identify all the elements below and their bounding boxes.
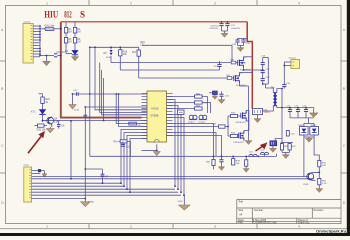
svg-text:R25 10k: R25 10k xyxy=(37,128,47,131)
title block xyxy=(237,199,341,224)
comp row y156: resistor R45 xyxy=(206,156,215,169)
svg-text:1: 1 xyxy=(46,1,48,5)
diode D32 boxed xyxy=(310,125,319,135)
capacitor C31 on red rail xyxy=(225,22,240,31)
transistor Q3 mosfet lower xyxy=(226,73,247,87)
svg-text:C: C xyxy=(343,144,346,148)
svg-text:3: 3 xyxy=(214,1,216,5)
connector CN2 xyxy=(24,163,32,202)
svg-text:1.2K: 1.2K xyxy=(322,183,327,185)
wire red top horizontal xyxy=(61,21,247,23)
ground under resistor network xyxy=(282,155,289,159)
svg-text:Number: Number xyxy=(254,208,263,212)
resistor R31 right of IC xyxy=(167,101,211,113)
transformer T1 xyxy=(263,88,283,111)
svg-text:Drawn by:: Drawn by: xyxy=(298,220,310,224)
resistor R32 right of IC xyxy=(167,105,203,110)
ground below D2 xyxy=(71,57,78,61)
svg-text:D: D xyxy=(1,201,4,205)
svg-text:C: C xyxy=(1,144,4,148)
transistor Q5 xyxy=(303,172,319,185)
svg-text:CN2: CN2 xyxy=(24,163,30,167)
svg-text:25V/50V: 25V/50V xyxy=(210,28,219,30)
resistor R2 (grid top-right) xyxy=(73,27,81,33)
comp row y156: resistor R50 + ground xyxy=(243,156,249,172)
wire left fan lower nested xyxy=(121,130,147,193)
ground below C6 xyxy=(43,61,51,66)
svg-text:C12: C12 xyxy=(126,147,131,149)
svg-text:R17: R17 xyxy=(132,52,137,54)
wire IC left pins xyxy=(142,94,148,139)
wire IC pin1 horizontal + ground left xyxy=(73,93,148,95)
node dots pin1 net xyxy=(89,46,120,121)
capacitor C19 under CN3 xyxy=(281,83,291,90)
resistor R52 xyxy=(318,178,327,188)
svg-text:OnlineSpark.Ru.ru: OnlineSpark.Ru.ru xyxy=(316,229,350,234)
resistor R19 inline below red wire xyxy=(129,122,142,127)
capacitors C14 C15 C16b plates xyxy=(288,109,308,111)
left zone ticks xyxy=(0,60,6,62)
ground below U3 xyxy=(254,119,261,123)
resistor R14 + capacitor C12 near IC left top xyxy=(114,140,131,157)
svg-text:4148: 4148 xyxy=(74,110,80,112)
svg-text:10R: 10R xyxy=(226,75,230,77)
svg-text:10R: 10R xyxy=(230,59,234,61)
svg-text:4148: 4148 xyxy=(106,57,112,59)
wire long mid horizontals xyxy=(111,62,238,64)
comp row y156: capacitor C22 + ground xyxy=(218,156,224,170)
node junction dots CN10 rail xyxy=(39,25,62,56)
annotation arrow 1 xyxy=(28,132,44,153)
svg-text:File:: File: xyxy=(238,220,243,224)
top zone ticks xyxy=(88,0,90,6)
inductor L1 xyxy=(44,25,54,31)
ground below R52 xyxy=(316,189,323,193)
red highlighted net and annotations xyxy=(28,10,267,154)
ground right of CN2 xyxy=(42,174,47,177)
svg-text:R14: R14 xyxy=(114,142,119,144)
svg-text:HIU: HIU xyxy=(44,10,58,20)
opto U5 xyxy=(188,115,197,124)
svg-text:1: 1 xyxy=(46,225,48,229)
svg-text:GND: GND xyxy=(178,201,183,203)
ground below C30 C31 xyxy=(221,31,228,37)
resistor R16 xyxy=(119,50,128,57)
capacitor C4 inline on pin1 wire xyxy=(73,90,78,96)
node dots cap rail xyxy=(281,107,307,109)
resistor R51 xyxy=(318,160,327,178)
svg-text:2: 2 xyxy=(130,225,132,229)
resistor R4 (grid bottom-right) xyxy=(73,37,81,43)
right zone ticks xyxy=(341,60,347,62)
capacitor C5 inline on left vertical xyxy=(74,110,92,119)
opto U6 xyxy=(199,115,208,124)
svg-text:100n/63V: 100n/63V xyxy=(231,28,241,30)
ground mid top (above comp row) xyxy=(245,139,252,145)
wire resistor grid verticals xyxy=(66,22,75,54)
svg-text:1M: 1M xyxy=(77,42,80,44)
wire Q3 connections xyxy=(239,72,252,138)
svg-text:812: 812 xyxy=(64,10,72,20)
wire top mid bus xyxy=(85,45,237,198)
capacitor C32 pair off red vertical xyxy=(232,39,251,48)
svg-text:FDD8447L: FDD8447L xyxy=(234,142,245,144)
transistor Q2 mosfet upper xyxy=(230,57,251,71)
transistor Q7 mosfet xyxy=(234,131,245,145)
wire right fan verticals xyxy=(167,100,185,196)
wire left fan upper xyxy=(59,47,147,179)
wire long right horizontals from IC lower pins xyxy=(167,124,222,157)
resistor R34 xyxy=(228,133,239,138)
node dots red rail caps xyxy=(221,21,229,23)
wire secondary cap rail xyxy=(282,89,314,143)
svg-text:0765B: 0765B xyxy=(151,114,159,118)
svg-text:Title: Title xyxy=(238,200,243,204)
ground below arrow2 box xyxy=(269,148,276,152)
svg-text:FDD8447L: FDD8447L xyxy=(236,122,247,124)
svg-text:1M: 1M xyxy=(68,32,71,34)
svg-text:3: 3 xyxy=(214,225,216,229)
comp row y156: dual diode DD1 xyxy=(249,152,257,157)
ground mid bottom GND2 xyxy=(178,195,190,210)
transistor Q4 xyxy=(43,117,60,127)
capacitor C7 near bottom xyxy=(85,169,109,184)
comp row y156: resistor R49 xyxy=(232,156,241,165)
capacitor C6 xyxy=(54,51,65,57)
wire red right vertical xyxy=(247,22,252,109)
diode D31 boxed xyxy=(299,125,309,135)
resistor R17 xyxy=(132,50,140,56)
svg-text:TL431: TL431 xyxy=(264,112,271,114)
ground mid bottom GND1 xyxy=(81,199,95,207)
wire CN2 bus lines xyxy=(32,177,314,199)
box target of arrow2 xyxy=(270,139,282,149)
wire Q2 drain to red xyxy=(243,57,262,70)
resistor network R41 R42 xyxy=(280,143,296,155)
ground below C32 pair xyxy=(237,48,244,52)
connector CN3 xyxy=(283,57,299,85)
resistor R24 xyxy=(39,94,51,110)
wire secondary rect rail xyxy=(304,118,319,177)
node dots right fan xyxy=(174,185,185,196)
wire Q6 Q7 drains to red node xyxy=(244,111,249,131)
wire IC bottom stem + ground xyxy=(142,144,161,155)
svg-text:C6 104: C6 104 xyxy=(57,51,66,54)
svg-text:D: D xyxy=(343,201,346,205)
comp row y156: dual diode DD2 xyxy=(260,150,268,157)
wire Q4 base net to right xyxy=(46,120,60,122)
ferrite bead FB1 xyxy=(38,169,41,172)
resistor R1 (grid top-left) xyxy=(64,27,72,33)
thyristor KY1 (filled) xyxy=(31,109,46,122)
ground under diode rail xyxy=(306,138,313,142)
IC U3 small regulator at red end xyxy=(253,109,271,119)
transistor Q6 mosfet xyxy=(236,111,247,124)
wire CN2 top pins + ferrite + ground xyxy=(32,171,45,174)
wire comp row right end up xyxy=(276,154,278,157)
node dots top bus xyxy=(84,46,121,199)
svg-text:A4: A4 xyxy=(239,212,243,216)
bottom zone ticks xyxy=(88,224,90,229)
svg-text:C:\EWB\HIU812.ddb: C:\EWB\HIU812.ddb xyxy=(253,220,277,224)
wire pin rail xyxy=(39,26,41,56)
diode D5 xyxy=(104,50,113,59)
capacitor C40 xyxy=(286,131,295,137)
box U7 top corner + ground xyxy=(209,91,218,99)
svg-text:KY1: KY1 xyxy=(31,111,36,114)
svg-text:KA3S: KA3S xyxy=(152,107,159,111)
resistor R25 horizontal xyxy=(35,124,48,131)
wire IC right pins xyxy=(167,94,173,136)
node dot Q4 base xyxy=(42,120,44,122)
node dots comp row xyxy=(213,156,260,158)
capacitor C13 on wire y70 xyxy=(214,61,222,70)
wire red left vertical (thick) xyxy=(60,22,62,118)
wire red mid horizontal to IC xyxy=(60,117,142,119)
wire CN10 pins xyxy=(33,26,61,61)
node dots fans xyxy=(70,120,131,193)
resistor R30 right of IC xyxy=(167,93,208,113)
svg-text:4: 4 xyxy=(298,1,300,5)
svg-text:10K: 10K xyxy=(322,165,326,167)
capacitor chain ladder C16 C17 C18 xyxy=(243,56,271,88)
capacitor C30 on red rail xyxy=(210,22,224,31)
svg-text:1M: 1M xyxy=(68,42,71,44)
svg-text:C945: C945 xyxy=(303,184,309,186)
op-amp U2 main IC xyxy=(147,91,167,142)
ground right of cap rail xyxy=(309,113,318,118)
resistor R3 (grid bottom-left) xyxy=(64,37,72,43)
svg-text:S: S xyxy=(80,10,85,20)
box U4 small xyxy=(178,110,185,115)
capacitor C34 + ground near top xyxy=(218,91,230,103)
diode D2 zener xyxy=(65,50,78,56)
annotation arrow 2 xyxy=(256,143,267,151)
svg-text:1M: 1M xyxy=(77,32,80,34)
resistor R33 xyxy=(228,113,241,118)
connector CN10 xyxy=(23,20,33,63)
ground below Q4 xyxy=(46,127,54,133)
capacitor C8 xyxy=(57,121,65,129)
svg-text:Revision: Revision xyxy=(314,208,325,212)
wire mid long horizontal y156 xyxy=(90,155,277,157)
svg-text:2: 2 xyxy=(130,1,132,5)
capacitor C36 inline box xyxy=(212,116,229,136)
svg-text:Size: Size xyxy=(238,208,244,212)
svg-text:4: 4 xyxy=(298,225,300,229)
